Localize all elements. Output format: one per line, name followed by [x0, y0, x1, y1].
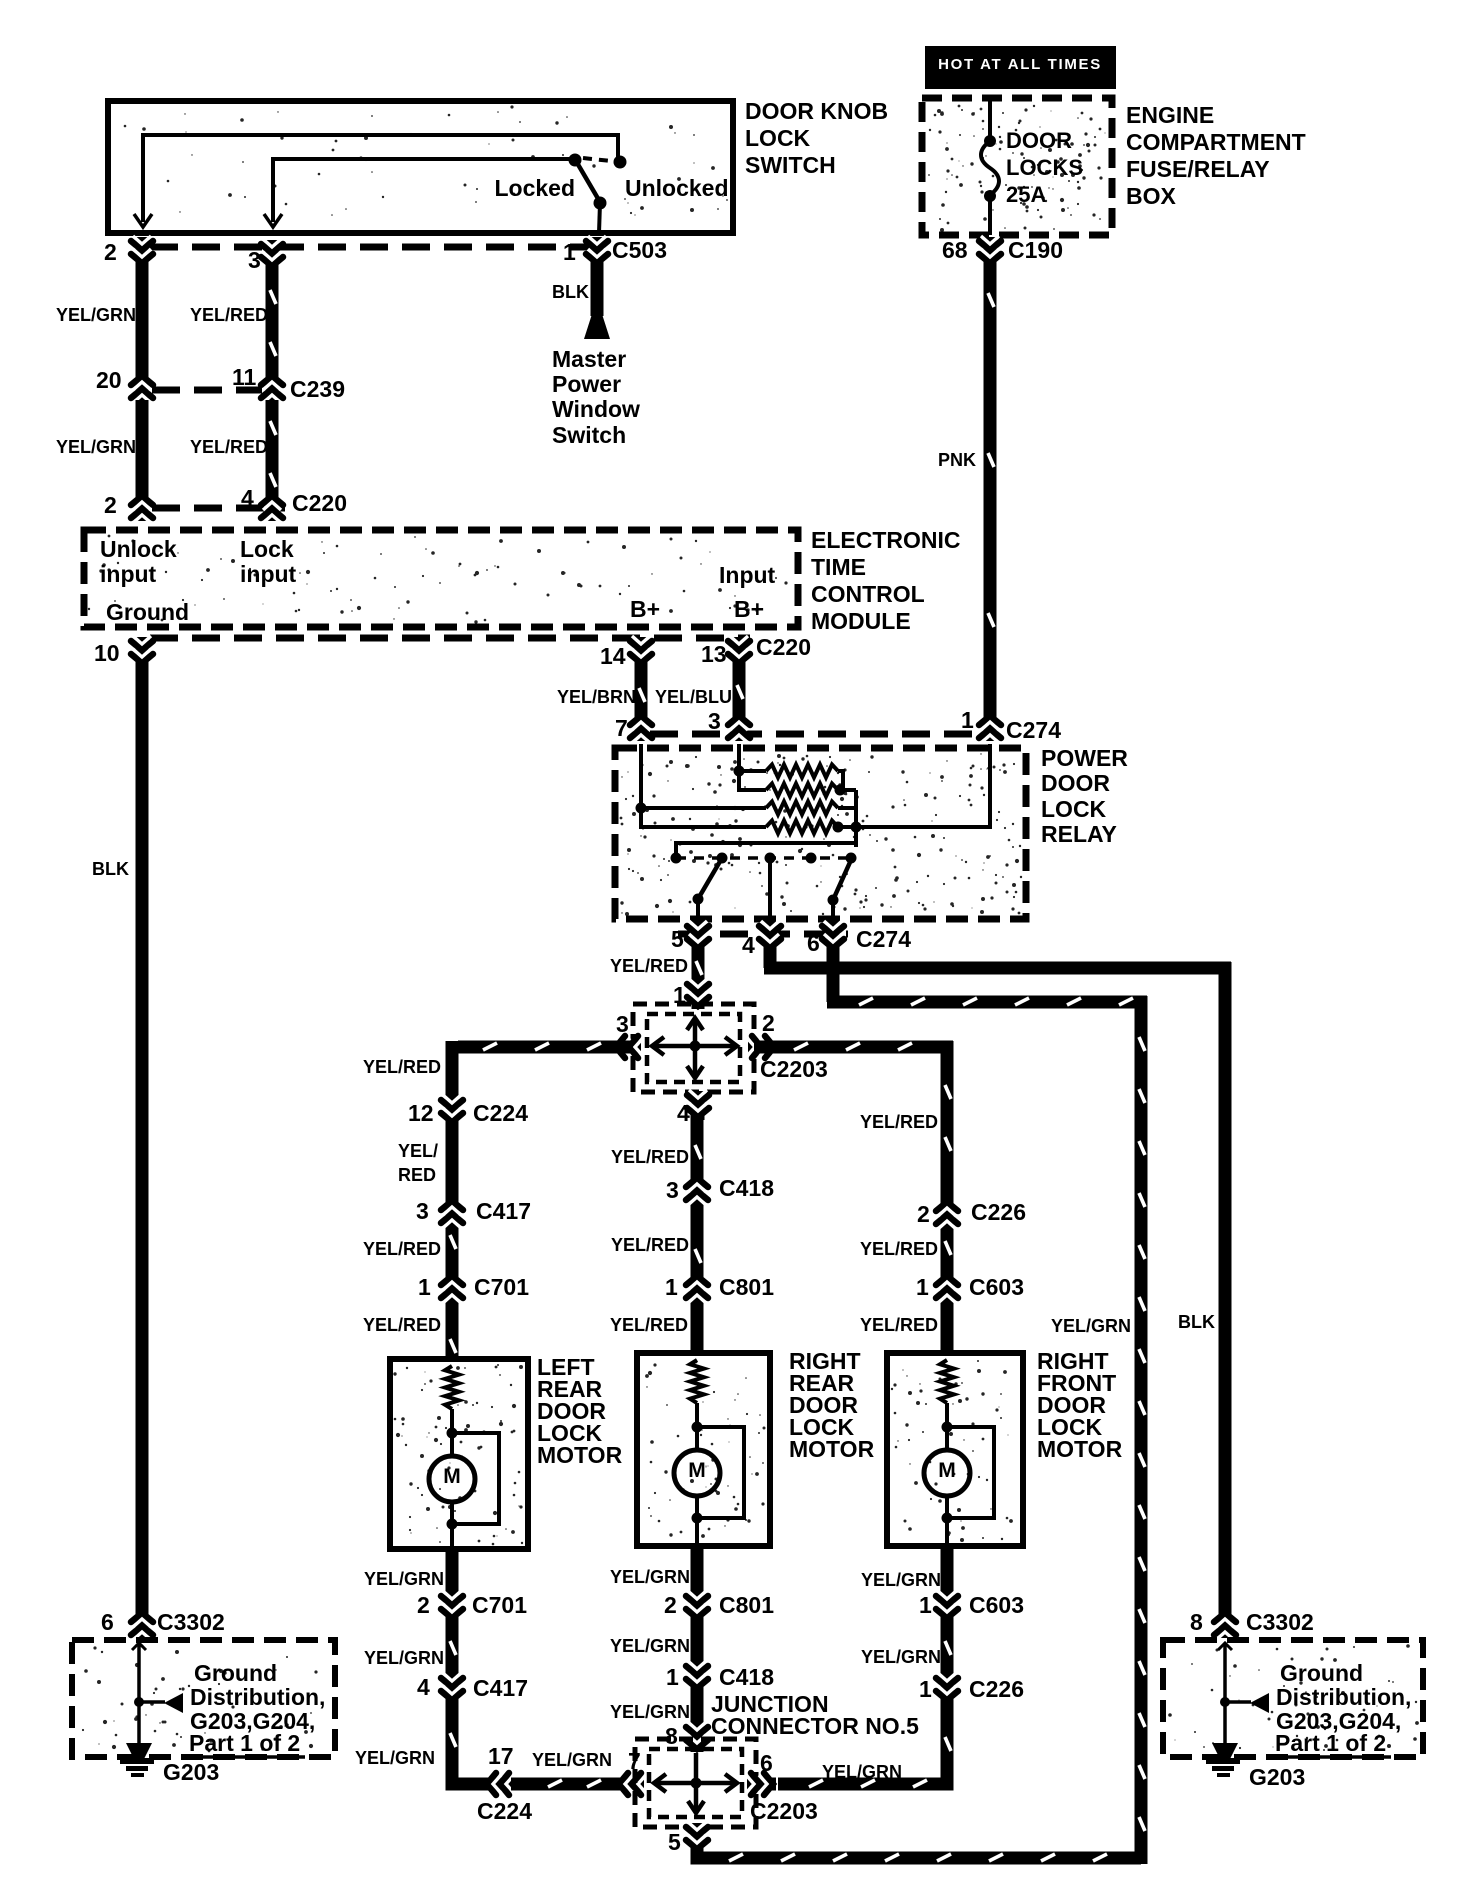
ground wire inside left box — [137, 1645, 141, 1744]
svg-text:11: 11 — [232, 364, 257, 390]
wire YEL/GRN pin2 C503 to pin20 C239 — [136, 262, 149, 378]
motor bypass loop — [697, 1427, 744, 1518]
svg-text:PNK: PNK — [938, 450, 976, 470]
motor internal resistor — [940, 1360, 954, 1403]
svg-text:1: 1 — [919, 1676, 932, 1702]
connector C220 second dashed row — [150, 635, 750, 642]
svg-text:C603: C603 — [969, 1592, 1024, 1618]
motor internal bottom dot — [450, 1502, 454, 1549]
svg-text:C274: C274 — [1006, 717, 1061, 743]
svg-text:YEL/BLU: YEL/BLU — [655, 687, 732, 707]
wire BLK pin1 C503 to master power window switch — [591, 262, 604, 316]
svg-text:Switch: Switch — [552, 422, 626, 448]
svg-text:CONTROL: CONTROL — [811, 581, 925, 607]
svg-text:C2203: C2203 — [760, 1056, 828, 1082]
svg-text:C224: C224 — [477, 1798, 532, 1824]
svg-text:3: 3 — [708, 708, 721, 734]
svg-text:C801: C801 — [719, 1592, 774, 1618]
svg-text:C220: C220 — [756, 634, 811, 660]
junction dot left box — [134, 1697, 144, 1707]
svg-text:C274: C274 — [856, 926, 911, 952]
svg-text:M: M — [443, 1465, 461, 1488]
motor internal bottom dot — [695, 1496, 699, 1546]
svg-text:BLK: BLK — [552, 282, 589, 302]
switch dashed throw to Unlocked — [583, 158, 611, 161]
wire YEL/RED pin3 C503 to pin11 C239 — [266, 265, 279, 378]
svg-text:YEL/GRN: YEL/GRN — [822, 1762, 902, 1782]
svg-text:FUSE/RELAY: FUSE/RELAY — [1126, 156, 1270, 182]
svg-text:14: 14 — [600, 643, 626, 669]
svg-text:C418: C418 — [719, 1175, 774, 1201]
svg-text:YEL/GRN: YEL/GRN — [610, 1636, 690, 1656]
relay internal wire from pin 1 — [838, 744, 990, 827]
switch common pivot dot — [569, 154, 582, 167]
motor M circle — [674, 1450, 720, 1496]
svg-text:DOOR: DOOR — [1041, 770, 1110, 796]
svg-text:4: 4 — [417, 1674, 430, 1700]
svg-text:LOCK: LOCK — [745, 125, 811, 151]
wire relay pin4 to BLK right side down to C3302 — [764, 948, 777, 968]
svg-text:YEL/GRN: YEL/GRN — [355, 1748, 435, 1768]
svg-text:BOX: BOX — [1126, 183, 1177, 209]
ground distribution box right — [1163, 1640, 1423, 1757]
svg-text:Input: Input — [719, 562, 776, 588]
motor bypass loop — [452, 1433, 499, 1524]
svg-text:C3302: C3302 — [1246, 1609, 1314, 1635]
relay coil 2 — [766, 784, 838, 797]
relay contact dashed linkage — [676, 856, 851, 860]
svg-text:C417: C417 — [476, 1198, 531, 1224]
svg-text:Lock: Lock — [240, 536, 294, 562]
svg-text:HOT AT ALL TIMES: HOT AT ALL TIMES — [938, 56, 1102, 73]
svg-text:6: 6 — [101, 1609, 114, 1635]
svg-text:3: 3 — [616, 1011, 629, 1037]
svg-text:POWER: POWER — [1041, 745, 1128, 771]
svg-text:Part 1 of 2: Part 1 of 2 — [1275, 1730, 1386, 1756]
pointer triangle left box — [164, 1693, 183, 1713]
svg-text:YEL/RED: YEL/RED — [860, 1239, 938, 1259]
relay wire arm2 to pin 6 — [831, 900, 835, 922]
motor internal top dot — [692, 1422, 703, 1433]
svg-text:3: 3 — [666, 1177, 679, 1203]
wire YEL/GRN pin20 C239 to pin2 C220 — [136, 400, 149, 498]
wire YEL/BRN pin14 to relay pin7 — [635, 663, 648, 718]
ground distribution box left — [72, 1640, 335, 1757]
wire switch arm down to pin 1 — [599, 203, 600, 233]
svg-text:B+: B+ — [630, 596, 660, 622]
connector C220 dashed row — [152, 505, 285, 512]
svg-text:1: 1 — [919, 1592, 932, 1618]
svg-text:Unlock: Unlock — [100, 536, 177, 562]
right rear door lock motor box — [637, 1353, 770, 1546]
switch Unlocked contact dot — [614, 156, 627, 169]
relay wire arm1 to pin 5 — [696, 899, 700, 922]
junction connector no.5 top C2203 box — [633, 1004, 754, 1092]
svg-text:YEL/RED: YEL/RED — [610, 1315, 688, 1335]
svg-text:C417: C417 — [473, 1675, 528, 1701]
ground symbol G203 left — [126, 1743, 152, 1759]
svg-text:Part 1 of 2: Part 1 of 2 — [189, 1730, 300, 1756]
relay contact dots — [671, 853, 682, 864]
svg-text:YEL/GRN: YEL/GRN — [610, 1567, 690, 1587]
motor internal top dot — [942, 1422, 953, 1433]
svg-text:C801: C801 — [719, 1274, 774, 1300]
svg-text:5: 5 — [668, 1829, 681, 1855]
svg-text:1: 1 — [418, 1274, 431, 1300]
svg-text:input: input — [240, 561, 297, 587]
svg-text:G203: G203 — [1249, 1764, 1305, 1790]
pointer triangle right box — [1250, 1693, 1269, 1713]
svg-text:Locked: Locked — [494, 175, 575, 201]
svg-text:C239: C239 — [290, 376, 345, 402]
triangle to Master Power Window Switch — [584, 314, 610, 339]
wire from Unlocked contact to pin 2 arrow — [143, 135, 618, 222]
svg-text:2: 2 — [417, 1592, 430, 1618]
motor internal resistor — [445, 1366, 459, 1409]
svg-text:MOTOR: MOTOR — [537, 1442, 623, 1468]
svg-text:C418: C418 — [719, 1664, 774, 1690]
svg-text:4: 4 — [742, 932, 755, 958]
svg-text:C190: C190 — [1008, 237, 1063, 263]
svg-text:7: 7 — [615, 715, 628, 741]
svg-text:6: 6 — [807, 930, 820, 956]
svg-text:4: 4 — [241, 485, 254, 511]
junction connector no.5 bottom C2203 box — [635, 1739, 756, 1827]
svg-text:YEL/RED: YEL/RED — [860, 1315, 938, 1335]
svg-text:G203: G203 — [163, 1759, 219, 1785]
svg-text:YEL/GRN: YEL/GRN — [364, 1569, 444, 1589]
left rear door lock motor box — [390, 1359, 528, 1549]
svg-text:C3302: C3302 — [157, 1609, 225, 1635]
svg-text:1: 1 — [665, 1274, 678, 1300]
motor internal top dot — [447, 1428, 458, 1439]
svg-text:YEL/RED: YEL/RED — [190, 305, 268, 325]
svg-text:DOOR: DOOR — [1006, 128, 1072, 153]
motor bypass loop — [947, 1427, 994, 1518]
junction bottom arrows — [654, 1781, 737, 1786]
svg-text:M: M — [938, 1459, 956, 1482]
relay wire pin 4 — [768, 858, 772, 922]
relay internal wire from pin 7 — [641, 744, 766, 827]
wire YEL/GRN right motor down — [941, 1546, 954, 1596]
svg-text:YEL/RED: YEL/RED — [363, 1239, 441, 1259]
switch arm bottom dot — [594, 197, 607, 210]
junction top arrows — [652, 1044, 737, 1049]
wire YEL/GRN junction pin5 bottom loop — [697, 1847, 1141, 1858]
svg-text:C226: C226 — [971, 1199, 1026, 1225]
relay coil 1 — [766, 765, 838, 778]
relay coil 4 — [766, 821, 838, 834]
svg-text:YEL/RED: YEL/RED — [610, 956, 688, 976]
svg-text:ENGINE: ENGINE — [1126, 102, 1214, 128]
svg-text:8: 8 — [665, 1723, 678, 1749]
svg-text:SWITCH: SWITCH — [745, 152, 836, 178]
connector C274 bottom dashed row — [678, 931, 848, 938]
svg-text:YEL/RED: YEL/RED — [860, 1112, 938, 1132]
motor internal bottom dot — [945, 1496, 949, 1546]
svg-text:C220: C220 — [292, 490, 347, 516]
svg-text:YEL/GRN: YEL/GRN — [56, 305, 136, 325]
wire YEL/RED relay pin5 to junction connector — [692, 948, 705, 990]
svg-text:Distribution,: Distribution, — [190, 1684, 325, 1710]
svg-text:ELECTRONIC: ELECTRONIC — [811, 527, 961, 553]
svg-text:input: input — [100, 561, 157, 587]
svg-text:C226: C226 — [969, 1676, 1024, 1702]
svg-text:LOCK: LOCK — [1041, 796, 1107, 822]
svg-text:2: 2 — [664, 1592, 677, 1618]
svg-text:BLK: BLK — [92, 859, 129, 879]
wire from Locked contact to pin 3 arrow — [273, 159, 570, 222]
connector C239 dashed row — [152, 387, 262, 394]
svg-text:YEL/RED: YEL/RED — [363, 1057, 441, 1077]
svg-text:C603: C603 — [969, 1274, 1024, 1300]
HOT AT ALL TIMES banner — [925, 46, 1116, 89]
svg-text:YEL/GRN: YEL/GRN — [1051, 1316, 1131, 1336]
svg-text:YEL/BRN: YEL/BRN — [557, 687, 636, 707]
svg-text:YEL/GRN: YEL/GRN — [861, 1570, 941, 1590]
svg-text:MOTOR: MOTOR — [789, 1436, 875, 1462]
svg-text:1: 1 — [563, 239, 576, 265]
wire YEL/RED junction pin3 left to left column — [458, 1041, 633, 1054]
svg-text:Ground: Ground — [106, 599, 189, 625]
svg-text:YEL/RED: YEL/RED — [611, 1235, 689, 1255]
relay coil 3 — [766, 802, 838, 815]
svg-text:CONNECTOR NO.5: CONNECTOR NO.5 — [711, 1713, 919, 1739]
svg-text:12: 12 — [408, 1100, 434, 1126]
svg-text:2: 2 — [917, 1201, 930, 1227]
wire BLK ground ETCM pin10 to C3302 — [136, 663, 149, 1615]
svg-text:20: 20 — [96, 367, 122, 393]
svg-text:2: 2 — [762, 1010, 775, 1036]
relay switch arm 1 — [698, 858, 722, 899]
svg-text:YEL/GRN: YEL/GRN — [56, 437, 136, 457]
wire YEL/GRN left motor down — [446, 1549, 459, 1596]
svg-text:YEL/GRN: YEL/GRN — [861, 1647, 941, 1667]
motor M circle — [924, 1450, 970, 1496]
wire relay pin6 YEL/GRN to right side down — [827, 948, 840, 1002]
svg-text:10: 10 — [94, 640, 120, 666]
ground wire inside right box — [1223, 1645, 1227, 1744]
junction dot right box — [1220, 1697, 1230, 1707]
svg-text:DOOR KNOB: DOOR KNOB — [745, 98, 888, 124]
wire YEL/RED junction pin2 right to right column — [754, 1041, 953, 1054]
svg-text:C503: C503 — [612, 237, 667, 263]
svg-text:C701: C701 — [472, 1592, 527, 1618]
svg-text:YEL/GRN: YEL/GRN — [532, 1750, 612, 1770]
relay coil right-side links — [838, 771, 843, 790]
svg-text:TIME: TIME — [811, 554, 866, 580]
svg-text:YEL/RED: YEL/RED — [611, 1147, 689, 1167]
svg-text:Window: Window — [552, 396, 640, 422]
svg-text:5: 5 — [671, 926, 684, 952]
engine compartment fuse/relay box — [922, 98, 1112, 235]
svg-text:25A: 25A — [1006, 182, 1046, 207]
svg-text:13: 13 — [701, 641, 727, 667]
svg-text:3: 3 — [416, 1198, 429, 1224]
svg-text:Ground: Ground — [1280, 1660, 1363, 1686]
right front door lock motor box — [887, 1353, 1023, 1546]
svg-text:COMPARTMENT: COMPARTMENT — [1126, 129, 1306, 155]
svg-text:C224: C224 — [473, 1100, 528, 1126]
ground symbol G203 right — [1212, 1743, 1238, 1759]
svg-text:8: 8 — [1190, 1609, 1203, 1635]
svg-text:1: 1 — [961, 707, 974, 733]
svg-text:C701: C701 — [474, 1274, 529, 1300]
power door lock relay box — [615, 748, 1026, 919]
electronic time control module box — [84, 530, 798, 627]
svg-text:68: 68 — [942, 237, 968, 263]
svg-text:M: M — [688, 1459, 706, 1482]
svg-text:Power: Power — [552, 371, 621, 397]
svg-text:1: 1 — [666, 1664, 679, 1690]
svg-text:YEL/GRN: YEL/GRN — [610, 1702, 690, 1722]
wire YEL/RED pin11 C239 to pin4 C220 — [266, 400, 279, 498]
switch arm to Locked position — [576, 161, 600, 202]
svg-text:2: 2 — [104, 239, 117, 265]
motor M circle — [429, 1456, 475, 1502]
door knob lock switch box — [108, 101, 733, 233]
svg-text:MOTOR: MOTOR — [1037, 1436, 1123, 1462]
svg-text:17: 17 — [488, 1743, 514, 1769]
relay contact feed bar — [676, 843, 856, 858]
svg-text:RELAY: RELAY — [1041, 821, 1117, 847]
relay internal wire from pin 3 — [739, 744, 766, 790]
svg-text:YEL/RED: YEL/RED — [190, 437, 268, 457]
svg-text:YEL/RED: YEL/RED — [363, 1315, 441, 1335]
connector C274 top dashed row — [650, 731, 980, 738]
connector C503 dashed row — [150, 244, 592, 251]
svg-text:YEL/GRN: YEL/GRN — [364, 1648, 444, 1668]
svg-text:Unlocked: Unlocked — [625, 175, 729, 201]
relay switch arm 2 — [833, 860, 851, 900]
svg-text:3: 3 — [248, 247, 261, 273]
motor internal resistor — [690, 1360, 704, 1403]
svg-text:BLK: BLK — [1178, 1312, 1215, 1332]
svg-text:RED: RED — [398, 1165, 436, 1185]
wire YEL/GRN C224 to junction pin7 — [511, 1778, 627, 1791]
wire YEL/BLU pin13 to relay pin3 — [733, 663, 746, 718]
svg-text:YEL/: YEL/ — [398, 1141, 438, 1161]
svg-text:Ground: Ground — [194, 1660, 277, 1686]
svg-text:1: 1 — [916, 1274, 929, 1300]
wire YEL/GRN to C224 elbow — [452, 1700, 487, 1784]
wire YEL/GRN middle motor down — [691, 1546, 704, 1596]
fuse DOOR LOCKS 25A — [988, 98, 992, 140]
scan speckle noise — [82, 105, 1419, 1753]
svg-text:2: 2 — [104, 492, 117, 518]
svg-text:Master: Master — [552, 346, 626, 372]
wire YEL/GRN C226 down to junction pin6 — [778, 1700, 947, 1784]
svg-text:MODULE: MODULE — [811, 608, 911, 634]
wire PNK fuse to relay pin1 C274 — [984, 262, 997, 716]
svg-text:C2203: C2203 — [750, 1798, 818, 1824]
wire YEL/RED junction pin4 down middle column — [691, 1114, 704, 1353]
